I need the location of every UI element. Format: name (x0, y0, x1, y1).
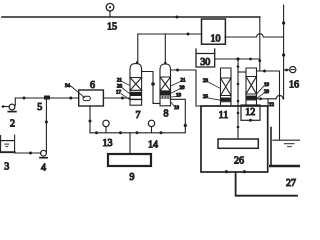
node arrow o5 (95, 131, 98, 134)
column 12 (246, 68, 257, 105)
node arrow header (187, 33, 190, 36)
pump 4 (40, 98, 48, 158)
wire header to columns 7 and 8 (138, 33, 202, 35)
wire column7 to column8 (142, 72, 160, 104)
wire column8 bottom outlet down and long line left (90, 99, 185, 133)
svg-text:23: 23 (203, 79, 209, 84)
box 9 (controller) (108, 154, 151, 166)
wire main top line (2, 16, 260, 18)
wire right feed: top line corner down, to y71, dip tube into tank 27 (257, 17, 280, 140)
svg-text:29: 29 (264, 90, 270, 95)
node c4 (237, 112, 240, 115)
node arrow o4 (119, 131, 122, 134)
leader 23 (208, 82, 221, 89)
column 11 (221, 68, 232, 106)
svg-text:15: 15 (107, 22, 117, 33)
node arrow g8 (176, 69, 179, 72)
leader 20a (122, 88, 130, 95)
svg-text:13: 13 (103, 138, 113, 149)
node arrow t3 (29, 152, 32, 155)
svg-text:19: 19 (264, 83, 270, 88)
wire stub 22 to box26 corner (267, 99, 269, 106)
svg-text:20: 20 (117, 85, 123, 90)
wire central vertical into reactor 26 (237, 59, 239, 139)
leader 19c (257, 86, 265, 94)
svg-text:10: 10 (211, 34, 221, 45)
node c1 (237, 65, 240, 68)
element 34 inside box 6 (83, 96, 90, 100)
node b26b (243, 170, 246, 173)
svg-text:30: 30 (200, 57, 210, 68)
leader 25 (209, 98, 223, 101)
node arrow f2 (69, 97, 72, 100)
column 7 (130, 61, 142, 105)
wire tank3 to pump4 (15, 152, 41, 154)
node arrow o3 (136, 131, 139, 134)
wire box10 outlet with hop over x260 (225, 34, 284, 37)
svg-text:7: 7 (136, 110, 141, 121)
leader 21a (122, 82, 130, 86)
node arrow A1 (282, 21, 285, 24)
wire stem to box 9 (129, 133, 131, 154)
leader 17 (121, 94, 130, 100)
svg-text:3: 3 (4, 162, 9, 173)
node c3 (237, 100, 240, 103)
wire box30 outlet (215, 58, 260, 60)
node junction at x260 (258, 59, 261, 62)
node r12 (249, 119, 252, 122)
box 10 (202, 19, 226, 44)
svg-text:19: 19 (176, 94, 182, 99)
node arrow on top line (176, 16, 179, 19)
gauge 14 (148, 120, 154, 133)
gauge 16 (284, 67, 296, 73)
svg-text:5: 5 (37, 102, 42, 113)
receiver under column 12 (241, 105, 260, 120)
svg-text:11: 11 (219, 110, 229, 121)
gauge 13 (103, 120, 109, 133)
svg-text:6: 6 (90, 80, 95, 91)
leader 29 (257, 93, 265, 99)
box 26 (reactor shell) (201, 106, 268, 172)
svg-text:27: 27 (286, 178, 296, 189)
node c5 (237, 126, 240, 129)
svg-text:9: 9 (130, 172, 135, 183)
svg-text:26: 26 (234, 156, 244, 167)
leader 19b (171, 96, 177, 99)
wire stub to column 12 top (238, 71, 246, 73)
wire box6 bottom stem (89, 106, 91, 133)
leader 20b (171, 89, 180, 93)
wire drop to column 8 (164, 34, 166, 64)
wire box6 to column 7 (103, 97, 130, 99)
svg-text:2: 2 (10, 119, 15, 130)
leader 34 (71, 86, 85, 98)
node arrow o1 (184, 124, 187, 127)
node junction central (236, 57, 239, 60)
node c2 (237, 83, 240, 86)
svg-text:34: 34 (65, 84, 71, 89)
wire column12 bottom line with hop to vent A (257, 95, 284, 98)
svg-text:8: 8 (164, 109, 169, 120)
svg-text:4: 4 (41, 163, 46, 174)
svg-text:22: 22 (269, 103, 275, 108)
svg-text:12: 12 (245, 107, 255, 118)
leader 21b (171, 82, 181, 87)
wire feed line 5 (15, 97, 78, 99)
tank 27 (270, 128, 300, 167)
svg-text:25: 25 (203, 95, 209, 100)
node arrow A2 (282, 53, 285, 56)
box 6 (preheater) (79, 90, 104, 106)
box 30 (seal bottle) (196, 49, 215, 67)
node arrow on y71 wire (263, 70, 266, 73)
column 8 (160, 62, 171, 106)
node arrow b6 (89, 120, 92, 123)
node b26a (225, 170, 228, 173)
gauge 15 (106, 3, 114, 17)
wire drop to column 7 (137, 34, 139, 63)
svg-text:20: 20 (180, 86, 186, 91)
wire drain from 26 (236, 172, 297, 196)
node arrow b67 (121, 97, 124, 100)
svg-text:16: 16 (289, 80, 299, 91)
tank 3 (1, 135, 15, 152)
node arrow box30 line (249, 58, 252, 61)
node h2 (259, 97, 262, 100)
wire vent line A (right vertical) (283, 5, 285, 99)
node arrow o2 (160, 131, 163, 134)
valve c78 (151, 82, 155, 86)
wire column8 top gas line to reactor 26 (171, 70, 202, 106)
node arrow f1 (23, 97, 26, 100)
svg-text:21: 21 (181, 79, 187, 84)
valve 5 (44, 96, 50, 100)
svg-text:14: 14 (148, 140, 158, 151)
heater bar in 26 (218, 139, 258, 148)
leader 18 (171, 102, 175, 107)
pump 2 (2, 98, 16, 112)
